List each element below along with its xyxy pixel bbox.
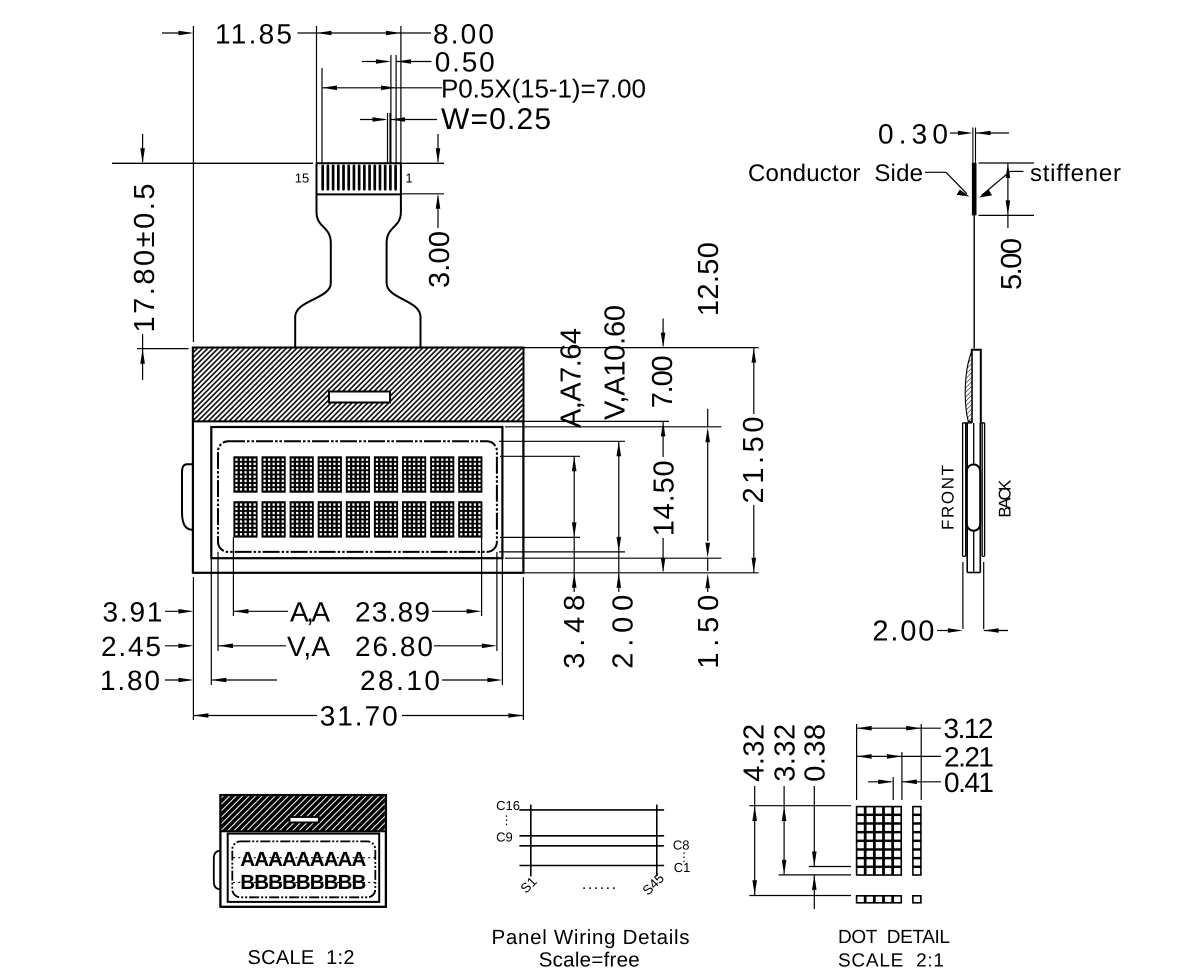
LCD module body outline (front view)	[193, 348, 524, 573]
svg-text:A,A: A,A	[290, 597, 330, 628]
extension line pin2 center	[390, 55, 392, 163]
svg-text:DOT DETAIL: DOT DETAIL	[838, 927, 950, 948]
scale 1:2 dotted center lines	[233, 857, 375, 859]
svg-text:2.00: 2.00	[608, 595, 640, 669]
svg-text:stiffener: stiffener	[1030, 160, 1121, 187]
svg-text:Conductor Side: Conductor Side	[748, 160, 923, 187]
side view glass stack	[963, 422, 972, 424]
svg-text:V,A: V,A	[287, 631, 330, 662]
svg-text:5.00: 5.00	[996, 238, 1028, 290]
glass pair	[966, 423, 968, 573]
extension line module bottom right	[523, 572, 758, 574]
svg-text:11.85: 11.85	[215, 18, 292, 49]
svg-text:0.41: 0.41	[944, 767, 994, 798]
conductor side leader	[925, 171, 946, 173]
svg-text:26.80: 26.80	[355, 631, 433, 662]
svg-text:SCALE 2:1: SCALE 2:1	[838, 950, 944, 971]
extension line contacts bottom right	[401, 193, 444, 195]
FPC top edge	[317, 162, 401, 164]
svg-text:0.30: 0.30	[878, 118, 948, 149]
15 contact fingers	[321, 165, 397, 191]
svg-text:21.50: 21.50	[738, 417, 770, 504]
dimension 0.50	[362, 61, 388, 63]
dimension 3.00	[437, 134, 439, 162]
svg-text:3.48: 3.48	[559, 595, 591, 669]
svg-text:12.50: 12.50	[693, 242, 725, 316]
dot detail extension horizontals left	[749, 805, 851, 807]
cell center line	[973, 423, 975, 572]
svg-text:V,A10.60: V,A10.60	[599, 305, 631, 420]
svg-text:P0.5X(15-1)=7.00: P0.5X(15-1)=7.00	[441, 74, 646, 104]
extension line FPC left	[316, 26, 318, 163]
svg-text:17.80±0.5: 17.80±0.5	[129, 184, 161, 333]
side view FPC free end (double line)	[972, 128, 974, 164]
svg-text:W=0.25: W=0.25	[441, 103, 551, 136]
extension line module right bottom	[522, 577, 524, 720]
hatch area bottom edge	[193, 420, 524, 422]
svg-text:23.89: 23.89	[355, 597, 430, 628]
svg-text:Panel Wiring Details: Panel Wiring Details	[492, 926, 690, 949]
dot detail grid 5x8	[857, 807, 902, 875]
character matrix 2x9 blocks	[233, 456, 257, 492]
svg-text:3.91: 3.91	[103, 597, 163, 628]
dimension 1.50	[707, 409, 709, 427]
COG IC area hatch	[194, 349, 523, 422]
svg-text:3.12: 3.12	[944, 713, 994, 744]
scale 1:2 left tab	[214, 851, 222, 890]
svg-text:......: ......	[582, 876, 618, 893]
dimension W=0.25	[360, 119, 385, 121]
dot detail bottom row	[857, 896, 921, 903]
dimension 2.00 bottom right	[618, 552, 620, 592]
dimension 14.50	[662, 421, 664, 457]
viewing area dash-dot rounded rect	[218, 441, 497, 552]
svg-text:2.45: 2.45	[101, 631, 161, 662]
extension line pin1 right	[400, 26, 402, 163]
dot detail extension verticals top	[856, 724, 858, 800]
dimension 3.48	[573, 537, 575, 592]
svg-text:3.00: 3.00	[424, 231, 456, 288]
dot detail 6th column	[913, 807, 921, 875]
extension line char right bottom	[481, 537, 483, 616]
extension line pin1 center	[395, 55, 397, 163]
extension line char top right	[500, 455, 580, 457]
dimension 17.80 +/-0.5	[142, 134, 144, 162]
svg-text:1: 1	[405, 171, 412, 186]
extension line display window bottom right	[505, 557, 721, 559]
extension line at module top left	[137, 348, 189, 350]
panel wiring line C1	[519, 865, 664, 867]
svg-text:7.00: 7.00	[647, 355, 679, 408]
extension line hatch bottom right	[523, 420, 669, 422]
dimension 0.41	[868, 781, 891, 783]
cell capsule	[967, 465, 980, 531]
panel wiring line C9	[519, 835, 664, 837]
svg-text:8.00: 8.00	[433, 18, 494, 49]
scale 1:2 hatch (dense)	[222, 796, 385, 831]
panel wiring S45 vertical	[656, 805, 658, 877]
FPC contact area outline	[295, 163, 331, 347]
dimension 21.50	[752, 348, 757, 363]
dimension A,A 7.64 vertical	[572, 456, 577, 471]
scale 1:2 VA dash-dot rounded rect	[232, 841, 375, 897]
side view upper glass	[972, 350, 981, 423]
scale 1:2 hatch bottom edge	[220, 830, 386, 832]
IC window (white rect in hatch)	[329, 392, 390, 403]
svg-text:4.32: 4.32	[739, 724, 771, 782]
panel wiring line C16	[519, 809, 664, 811]
svg-text:15: 15	[295, 171, 309, 186]
scale 1:2 display window	[228, 834, 380, 902]
extension line window right bottom	[501, 558, 503, 685]
extension line viewing area bottom right	[499, 551, 625, 553]
svg-text:C9: C9	[496, 829, 513, 844]
svg-text:28.10: 28.10	[360, 665, 440, 696]
svg-text:AAAAAAAAA: AAAAAAAAA	[240, 848, 366, 871]
svg-text:1.80: 1.80	[100, 665, 160, 696]
extension line VA left bottom	[217, 552, 219, 651]
side view FPC line to glass	[973, 215, 975, 348]
svg-text:BACK: BACK	[995, 479, 1014, 518]
stiffener leader	[1010, 170, 1024, 172]
extension lines pin width W	[387, 113, 389, 163]
extension line char left bottom	[232, 537, 234, 616]
svg-text:3.32: 3.32	[770, 724, 802, 782]
svg-text:FRONT: FRONT	[939, 465, 958, 530]
extension line contacts top left	[112, 162, 313, 164]
FPC contacts bottom line	[317, 193, 401, 195]
svg-text:1.50: 1.50	[693, 595, 725, 669]
scale 1:2 module outline	[220, 795, 386, 907]
extension line module left top	[192, 26, 194, 342]
panel wiring line C8	[519, 845, 664, 847]
extension line window left bottom	[210, 558, 212, 685]
dimension 5.00	[979, 162, 1035, 164]
svg-text:A,A7.64: A,A7.64	[555, 328, 587, 428]
side view ACF wedge hatch	[965, 352, 972, 422]
dimension 8.00	[317, 31, 332, 36]
scale 1:2 IC window	[290, 817, 319, 822]
front polarizer	[962, 423, 964, 556]
svg-text:C16: C16	[496, 798, 520, 813]
svg-text:14.50: 14.50	[649, 460, 681, 536]
svg-text:SCALE 1:2: SCALE 1:2	[248, 947, 355, 969]
dimension P0.5X(15-1)=7.00	[322, 86, 337, 91]
svg-text:C1: C1	[674, 860, 691, 875]
dimension 2.21	[857, 754, 872, 759]
extension line VA right bottom	[496, 552, 498, 651]
svg-text:⋮: ⋮	[501, 813, 513, 827]
dimension 2.00 side	[962, 562, 964, 629]
svg-text:2.00: 2.00	[872, 616, 934, 648]
dimension V,A 10.60 vertical	[617, 441, 622, 456]
extension line viewing area top right	[499, 440, 625, 442]
panel wiring S1 vertical	[530, 805, 532, 877]
dimension 7.00	[662, 319, 664, 347]
extension line module top right	[523, 347, 758, 349]
dimension 11.85	[162, 32, 191, 34]
dimension 31.70	[193, 713, 208, 718]
extension line display window top right	[505, 426, 721, 428]
extension line module left bottom	[192, 577, 194, 720]
stiffener (filled)	[972, 163, 977, 216]
svg-text:31.70: 31.70	[320, 701, 398, 732]
extension line char bottom right	[500, 536, 580, 538]
extension line pin15 center	[321, 68, 323, 163]
dimension 3.12	[857, 726, 872, 731]
display window rect	[211, 427, 502, 558]
left edge tab	[182, 464, 194, 529]
extension line contacts top right	[401, 162, 444, 164]
back polarizer	[981, 423, 983, 556]
svg-text:0.38: 0.38	[800, 724, 832, 782]
svg-text:Scale=free: Scale=free	[539, 949, 640, 972]
